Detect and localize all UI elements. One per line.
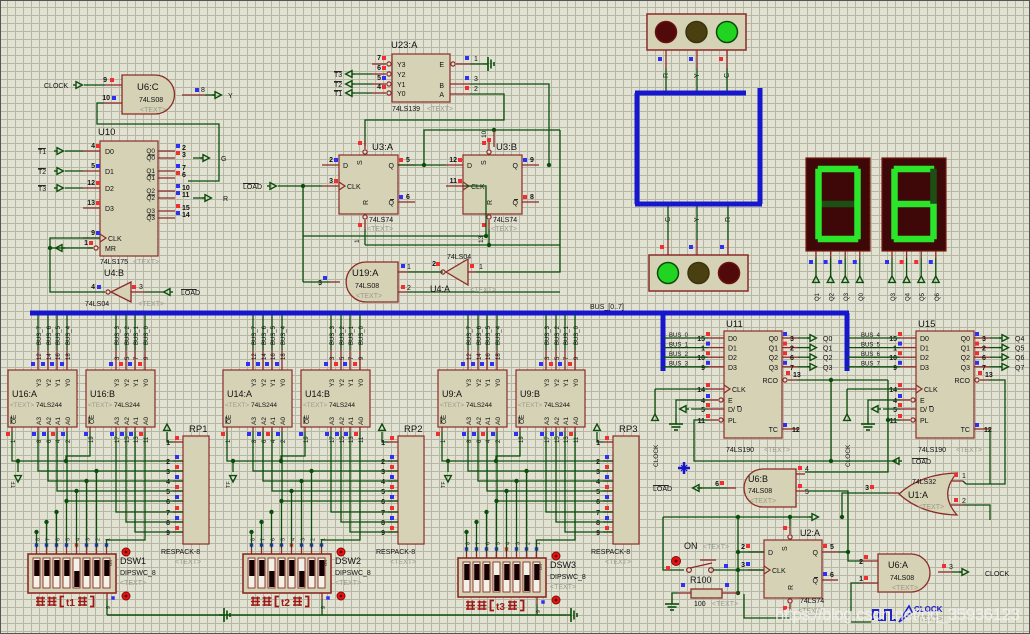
- svg-text:10: 10: [889, 355, 897, 362]
- svg-text:A0: A0: [280, 417, 287, 425]
- svg-text:74LS244: 74LS244: [329, 402, 355, 409]
- svg-text:A3: A3: [329, 417, 336, 425]
- svg-text:https://blog.csdn.net/qq_35936: https://blog.csdn.net/qq_35936123: [775, 605, 1020, 624]
- svg-text:74LS08: 74LS08: [139, 97, 163, 104]
- svg-text:Y1: Y1: [270, 379, 277, 387]
- svg-text:1: 1: [859, 576, 863, 583]
- svg-text:D2: D2: [920, 355, 929, 362]
- svg-text:8: 8: [166, 520, 170, 527]
- svg-text:LOAD: LOAD: [912, 459, 931, 466]
- svg-text:9: 9: [530, 157, 534, 164]
- svg-text:7: 7: [166, 510, 170, 517]
- svg-text:Y1: Y1: [485, 379, 492, 387]
- svg-text:RESPACK-8: RESPACK-8: [591, 549, 630, 556]
- svg-text:U9:A: U9:A: [442, 389, 462, 399]
- svg-text:13: 13: [87, 200, 95, 207]
- svg-text:BUS_5: BUS_5: [56, 325, 62, 345]
- svg-text:E: E: [920, 398, 925, 405]
- svg-text:2: 2: [407, 285, 411, 292]
- svg-text:12: 12: [252, 353, 258, 360]
- svg-text:<TEXT>: <TEXT>: [335, 580, 361, 587]
- svg-text:Q5: Q5: [1015, 346, 1024, 353]
- svg-text:9: 9: [166, 530, 170, 537]
- svg-text:S: S: [782, 546, 789, 551]
- svg-text:6: 6: [790, 355, 794, 362]
- svg-text:Y3: Y3: [544, 379, 551, 387]
- svg-text:3: 3: [329, 178, 333, 185]
- svg-text:A3: A3: [544, 417, 551, 425]
- svg-text:D/: D/: [920, 407, 927, 414]
- svg-text:<TEXT>: <TEXT>: [356, 293, 382, 300]
- svg-text:RP2: RP2: [404, 424, 422, 435]
- svg-text:Y1: Y1: [348, 379, 355, 387]
- svg-text:2: 2: [166, 459, 170, 466]
- svg-text:MR: MR: [105, 246, 116, 253]
- svg-text:T1: T1: [334, 91, 342, 98]
- svg-text:Y0: Y0: [65, 379, 72, 387]
- svg-text:1: 1: [166, 440, 170, 447]
- svg-text:74LS244: 74LS244: [466, 402, 492, 409]
- svg-text:CLOCK: CLOCK: [653, 444, 660, 467]
- svg-text:OE: OE: [304, 414, 311, 424]
- svg-text:RCO: RCO: [954, 378, 970, 385]
- svg-text:T3: T3: [38, 186, 46, 193]
- svg-text:Q7: Q7: [1015, 365, 1024, 372]
- svg-text:BUS_1: BUS_1: [669, 342, 689, 348]
- svg-text:BUS_3: BUS_3: [115, 325, 121, 345]
- svg-text:Y1: Y1: [563, 379, 570, 387]
- svg-text:1: 1: [701, 346, 705, 353]
- svg-text:BUS_4: BUS_4: [496, 325, 502, 345]
- svg-text:8: 8: [530, 194, 534, 201]
- svg-text:OE: OE: [11, 414, 18, 424]
- svg-text:BUS_0: BUS_0: [574, 325, 580, 345]
- svg-text:D: D: [467, 163, 472, 170]
- svg-text:Y1: Y1: [397, 82, 406, 89]
- svg-text:74LS04: 74LS04: [85, 301, 109, 308]
- svg-text:LOAD: LOAD: [181, 290, 200, 297]
- svg-text:Q2: Q2: [769, 355, 778, 362]
- svg-text:13: 13: [793, 372, 801, 379]
- svg-text:9: 9: [596, 530, 600, 537]
- svg-text:74LS08: 74LS08: [890, 575, 914, 582]
- svg-text:74LS139: 74LS139: [392, 106, 420, 113]
- svg-text:A0: A0: [573, 417, 580, 425]
- svg-text:16: 16: [271, 353, 277, 360]
- svg-text:E: E: [439, 62, 444, 69]
- svg-text:D2: D2: [728, 355, 737, 362]
- svg-text:RESPACK-8: RESPACK-8: [376, 549, 415, 556]
- svg-text:Q3: Q3: [823, 365, 832, 372]
- svg-text:2: 2: [381, 459, 385, 466]
- svg-text:Q3: Q3: [844, 292, 850, 301]
- svg-text:74LS08: 74LS08: [748, 488, 772, 495]
- svg-text:4: 4: [91, 143, 95, 150]
- svg-text:Q0: Q0: [859, 292, 865, 301]
- svg-text:9: 9: [91, 230, 95, 237]
- svg-text:Y: Y: [228, 93, 233, 100]
- svg-text:<TEXT>: <TEXT>: [303, 402, 327, 409]
- svg-text:4: 4: [91, 284, 95, 291]
- svg-text:t2: t2: [281, 598, 290, 609]
- svg-text:74LS190: 74LS190: [726, 447, 754, 454]
- svg-text:BUS_1: BUS_1: [134, 325, 140, 345]
- svg-text:DSW1: DSW1: [120, 556, 146, 566]
- svg-text:Q4: Q4: [906, 292, 912, 301]
- svg-text:3: 3: [790, 336, 794, 343]
- svg-text:BUS_6: BUS_6: [47, 325, 53, 345]
- svg-text:ON: ON: [108, 560, 113, 566]
- svg-text:U6:B: U6:B: [748, 474, 768, 484]
- svg-text:<TEXT>: <TEXT>: [703, 544, 729, 551]
- svg-text:<TEXT>: <TEXT>: [10, 402, 34, 409]
- svg-text:5: 5: [805, 489, 809, 496]
- svg-text:TF: TF: [226, 481, 232, 488]
- svg-text:U16:B: U16:B: [90, 389, 115, 399]
- svg-text:Y3: Y3: [329, 379, 336, 387]
- svg-text:Y2: Y2: [46, 379, 53, 387]
- svg-text:U23:A: U23:A: [391, 40, 418, 51]
- svg-text:<TEXT>: <TEXT>: [175, 559, 201, 566]
- svg-text:RP1: RP1: [189, 424, 207, 435]
- svg-text:D/: D/: [728, 407, 735, 414]
- svg-text:74LS08: 74LS08: [355, 283, 379, 290]
- svg-text:1: 1: [962, 473, 966, 480]
- svg-text:14: 14: [262, 353, 268, 360]
- svg-text:<TEXT>: <TEXT>: [120, 580, 146, 587]
- svg-text:Q0: Q0: [961, 336, 970, 343]
- svg-text:6: 6: [166, 499, 170, 506]
- svg-text:Q2: Q2: [823, 355, 832, 362]
- svg-text:DIPSWC_8: DIPSWC_8: [550, 574, 586, 581]
- svg-text:1: 1: [474, 56, 478, 63]
- svg-text:D0: D0: [920, 336, 929, 343]
- svg-text:<TEXT>: <TEXT>: [440, 402, 464, 409]
- svg-text:7: 7: [381, 510, 385, 517]
- svg-text:4: 4: [893, 398, 897, 405]
- svg-text:9: 9: [893, 365, 897, 372]
- svg-text:Y3: Y3: [397, 62, 406, 69]
- svg-text:D: D: [768, 550, 773, 557]
- svg-text:E: E: [728, 398, 733, 405]
- svg-text:D0: D0: [105, 149, 114, 156]
- svg-text:7: 7: [377, 55, 381, 62]
- svg-text:6: 6: [596, 499, 600, 506]
- svg-text:6: 6: [982, 355, 986, 362]
- svg-text:5: 5: [91, 163, 95, 170]
- svg-text:CLOCK: CLOCK: [845, 444, 852, 467]
- svg-text:Q: Q: [389, 163, 395, 170]
- svg-text:5: 5: [893, 407, 897, 414]
- svg-text:3: 3: [741, 562, 745, 569]
- svg-text:BUS_0: BUS_0: [669, 333, 689, 339]
- svg-text:U11: U11: [726, 319, 743, 330]
- svg-text:A0: A0: [143, 417, 150, 425]
- svg-text:U16:A: U16:A: [12, 389, 37, 399]
- svg-text:A2: A2: [339, 417, 346, 425]
- svg-text:<TEXT>: <TEXT>: [956, 447, 982, 454]
- svg-text:BUS_6: BUS_6: [477, 325, 483, 345]
- svg-text:DIPSWC_8: DIPSWC_8: [335, 570, 371, 577]
- svg-text:U9:B: U9:B: [520, 389, 540, 399]
- svg-text:D3: D3: [920, 365, 929, 372]
- svg-text:PL: PL: [728, 418, 737, 425]
- svg-text:3: 3: [381, 469, 385, 476]
- svg-text:Q3: Q3: [769, 365, 778, 372]
- svg-text:74LS74: 74LS74: [369, 217, 393, 224]
- svg-text:2: 2: [474, 86, 478, 93]
- svg-text:A0: A0: [358, 417, 365, 425]
- svg-text:A0: A0: [65, 417, 72, 425]
- svg-text:1: 1: [84, 240, 88, 247]
- svg-text:A1: A1: [55, 417, 62, 425]
- svg-text:U19:A: U19:A: [352, 268, 379, 279]
- svg-text:5: 5: [377, 75, 381, 82]
- svg-text:LOAD: LOAD: [653, 486, 672, 493]
- svg-text:3: 3: [596, 469, 600, 476]
- svg-text:D2: D2: [105, 186, 114, 193]
- svg-text:74LS74: 74LS74: [493, 217, 517, 224]
- svg-text:Y0: Y0: [495, 379, 502, 387]
- svg-text:A1: A1: [485, 417, 492, 425]
- svg-text:A3: A3: [466, 417, 473, 425]
- svg-text:4: 4: [596, 479, 600, 486]
- svg-text:LOAD: LOAD: [243, 184, 262, 191]
- svg-text:<TEXT>: <TEXT>: [225, 402, 249, 409]
- svg-text:CLK: CLK: [347, 184, 361, 191]
- svg-text:A2: A2: [476, 417, 483, 425]
- svg-text:12: 12: [37, 353, 43, 360]
- svg-text:Q3: Q3: [961, 365, 970, 372]
- svg-text:Y0: Y0: [143, 379, 150, 387]
- svg-text:Q: Q: [513, 200, 519, 207]
- svg-text:2: 2: [982, 346, 986, 353]
- svg-text:R: R: [223, 196, 228, 203]
- svg-text:Q2: Q2: [146, 195, 155, 202]
- svg-text:U3:A: U3:A: [372, 142, 394, 153]
- svg-text:Y2: Y2: [397, 72, 406, 79]
- svg-text:BUS_6: BUS_6: [262, 325, 268, 345]
- svg-text:7: 7: [182, 165, 186, 172]
- svg-text:74LS244: 74LS244: [251, 402, 277, 409]
- svg-text:T1: T1: [38, 149, 46, 156]
- svg-text:BUS_3: BUS_3: [669, 362, 689, 368]
- svg-text:A: A: [439, 92, 444, 99]
- svg-text:Y3: Y3: [114, 379, 121, 387]
- svg-text:Q6: Q6: [935, 292, 941, 301]
- svg-text:U: U: [929, 407, 934, 414]
- svg-text:Y1: Y1: [133, 379, 140, 387]
- svg-text:U2:A: U2:A: [800, 528, 820, 538]
- svg-text:D: D: [343, 163, 348, 170]
- svg-text:11: 11: [698, 418, 706, 425]
- svg-text:D0: D0: [728, 336, 737, 343]
- svg-text:5: 5: [701, 407, 705, 414]
- svg-text:5: 5: [406, 157, 410, 164]
- svg-text:74LS74: 74LS74: [800, 598, 824, 605]
- svg-text:1: 1: [893, 346, 897, 353]
- svg-text:U14:A: U14:A: [227, 389, 252, 399]
- svg-text:BUS_7: BUS_7: [37, 325, 43, 345]
- svg-text:<TEXT>: <TEXT>: [88, 402, 112, 409]
- svg-text:15: 15: [182, 205, 190, 212]
- svg-text:13: 13: [985, 372, 993, 379]
- svg-text:BUS_1: BUS_1: [564, 325, 570, 345]
- svg-text:A3: A3: [251, 417, 258, 425]
- svg-text:11: 11: [890, 418, 898, 425]
- svg-text:A3: A3: [36, 417, 43, 425]
- svg-text:1: 1: [381, 440, 385, 447]
- svg-text:U1:A: U1:A: [908, 490, 928, 500]
- svg-text:4: 4: [377, 84, 381, 91]
- svg-text:BUS_[0..7]: BUS_[0..7]: [590, 304, 624, 311]
- svg-text:74LS32: 74LS32: [912, 479, 936, 486]
- svg-text:9: 9: [701, 365, 705, 372]
- svg-text:2: 2: [329, 157, 333, 164]
- svg-text:A3: A3: [114, 417, 121, 425]
- svg-text:<TEXT>: <TEXT>: [390, 559, 416, 566]
- svg-text:Q: Q: [813, 578, 819, 585]
- svg-text:S: S: [357, 160, 364, 165]
- svg-text:10: 10: [481, 130, 488, 138]
- svg-text:Y0: Y0: [397, 91, 406, 98]
- svg-text:DIPSWC_8: DIPSWC_8: [120, 570, 156, 577]
- svg-text:5: 5: [830, 544, 834, 551]
- svg-text:BUS_2: BUS_2: [125, 325, 131, 345]
- svg-text:R: R: [788, 585, 795, 590]
- svg-text:ON: ON: [538, 564, 543, 570]
- svg-text:BUS_0: BUS_0: [359, 325, 365, 345]
- svg-text:A2: A2: [554, 417, 561, 425]
- svg-text:Q: Q: [513, 163, 519, 170]
- svg-text:Y0: Y0: [573, 379, 580, 387]
- svg-text:Q0: Q0: [823, 336, 832, 343]
- svg-text:BUS_2: BUS_2: [669, 352, 689, 358]
- svg-text:3: 3: [949, 564, 953, 571]
- svg-text:PL: PL: [920, 418, 929, 425]
- svg-text:3: 3: [318, 280, 322, 287]
- svg-text:Q3: Q3: [146, 215, 155, 222]
- svg-text:Q2: Q2: [830, 292, 836, 301]
- svg-text:U14:B: U14:B: [305, 389, 330, 399]
- svg-text:BUS_5: BUS_5: [861, 342, 881, 348]
- svg-text:<TEXT>: <TEXT>: [367, 226, 393, 233]
- svg-text:BUS_1: BUS_1: [349, 325, 355, 345]
- svg-text:U10: U10: [98, 127, 115, 138]
- svg-text:Y2: Y2: [554, 379, 561, 387]
- svg-text:R100: R100: [690, 575, 712, 585]
- svg-text:t3: t3: [496, 602, 505, 613]
- svg-text:Q0: Q0: [146, 155, 155, 162]
- svg-text:3: 3: [982, 336, 986, 343]
- svg-text:OE: OE: [89, 414, 96, 424]
- svg-text:18: 18: [281, 353, 287, 360]
- svg-text:CLK: CLK: [924, 387, 938, 394]
- svg-text:A0: A0: [495, 417, 502, 425]
- svg-text:18: 18: [496, 353, 502, 360]
- svg-text:S: S: [481, 160, 488, 165]
- svg-text:BUS_5: BUS_5: [486, 325, 492, 345]
- svg-text:6: 6: [182, 172, 186, 179]
- svg-text:CLK: CLK: [772, 568, 786, 575]
- svg-text:CLK: CLK: [732, 387, 746, 394]
- svg-text:Y0: Y0: [358, 379, 365, 387]
- svg-text:A2: A2: [261, 417, 268, 425]
- svg-text:10: 10: [182, 185, 190, 192]
- svg-text:U: U: [737, 407, 742, 414]
- svg-text:BUS_3: BUS_3: [330, 325, 336, 345]
- svg-text:3: 3: [474, 76, 478, 83]
- svg-text:8: 8: [201, 87, 205, 94]
- svg-text:5: 5: [596, 489, 600, 496]
- svg-text:Y0: Y0: [280, 379, 287, 387]
- svg-text:BUS_2: BUS_2: [555, 325, 561, 345]
- svg-text:16: 16: [56, 353, 62, 360]
- svg-text:74LS244: 74LS244: [544, 402, 570, 409]
- svg-text:2: 2: [859, 559, 863, 566]
- svg-text:<TEXT>: <TEXT>: [491, 226, 517, 233]
- svg-text:CLK: CLK: [471, 184, 485, 191]
- svg-text:CLK: CLK: [108, 236, 122, 243]
- svg-text:12: 12: [449, 157, 457, 164]
- svg-text:7: 7: [596, 510, 600, 517]
- svg-text:<TEXT>: <TEXT>: [918, 504, 944, 511]
- svg-text:5: 5: [166, 489, 170, 496]
- svg-text:BUS_3: BUS_3: [545, 325, 551, 345]
- svg-text:U4:B: U4:B: [104, 268, 124, 278]
- svg-text:BUS_7: BUS_7: [467, 325, 473, 345]
- svg-text:T2: T2: [334, 82, 342, 89]
- svg-text:Q1: Q1: [146, 168, 155, 175]
- svg-text:Y1: Y1: [55, 379, 62, 387]
- svg-text:4: 4: [166, 479, 170, 486]
- svg-text:1: 1: [596, 440, 600, 447]
- svg-text:BUS_6: BUS_6: [861, 352, 881, 358]
- svg-text:A1: A1: [133, 417, 140, 425]
- svg-text:BUS_7: BUS_7: [252, 325, 258, 345]
- svg-text:Q3: Q3: [891, 292, 897, 301]
- svg-text:TC: TC: [769, 427, 778, 434]
- svg-text:Q4: Q4: [1015, 336, 1024, 343]
- svg-text:RP3: RP3: [619, 424, 637, 435]
- svg-text:Y3: Y3: [36, 379, 43, 387]
- svg-text:Q3: Q3: [146, 208, 155, 215]
- svg-text:CLOCK: CLOCK: [44, 83, 68, 90]
- svg-text:D3: D3: [105, 206, 114, 213]
- svg-text:OE: OE: [519, 414, 526, 424]
- svg-text:74LS190: 74LS190: [918, 447, 946, 454]
- svg-text:4: 4: [381, 479, 385, 486]
- svg-text:14: 14: [182, 212, 190, 219]
- svg-text:11: 11: [450, 178, 458, 185]
- svg-text:BUS_4: BUS_4: [281, 325, 287, 345]
- svg-text:Q6: Q6: [1015, 355, 1024, 362]
- svg-text:Q5: Q5: [920, 292, 926, 301]
- svg-text:1: 1: [407, 264, 411, 271]
- svg-text:D1: D1: [728, 346, 737, 353]
- svg-text:7: 7: [982, 365, 986, 372]
- svg-text:16: 16: [486, 353, 492, 360]
- svg-text:7: 7: [790, 365, 794, 372]
- svg-text:D3: D3: [728, 365, 737, 372]
- svg-text:12: 12: [984, 427, 992, 434]
- svg-text:15: 15: [697, 336, 705, 343]
- svg-text:TF: TF: [11, 481, 17, 488]
- svg-text:12: 12: [87, 180, 95, 187]
- svg-text:6: 6: [715, 481, 719, 488]
- svg-text:<TEXT>: <TEXT>: [764, 447, 790, 454]
- svg-text:2: 2: [596, 459, 600, 466]
